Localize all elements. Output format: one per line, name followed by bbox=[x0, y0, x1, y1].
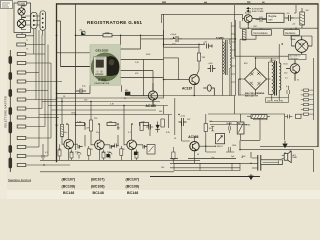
switch contact rects column bbox=[17, 53, 26, 167]
scattered tiny value labels bbox=[26, 10, 309, 169]
capacitor small row right bbox=[285, 114, 302, 118]
svg-text:+100: +100 bbox=[208, 63, 214, 65]
svg-text:REGISTRATORE: REGISTRATORE bbox=[95, 82, 110, 85]
wires oscillator bbox=[234, 3, 318, 56]
resistor hatched TERM row bbox=[247, 115, 270, 119]
svg-text:10: 10 bbox=[241, 157, 243, 159]
svg-text:AC128: AC128 bbox=[245, 12, 251, 15]
wire rails right of stamp bbox=[121, 49, 164, 96]
wire vertical x235.5 bbox=[235, 20, 237, 96]
wire bottom rail y171.8 bbox=[40, 171, 174, 173]
svg-text:BC148: BC148 bbox=[93, 191, 104, 195]
transistor Q1 bbox=[64, 139, 74, 149]
wire rails jack area bbox=[170, 152, 258, 168]
svg-text:0,1: 0,1 bbox=[45, 152, 48, 154]
svg-text:680: 680 bbox=[117, 128, 120, 130]
wire switch spine bbox=[9, 50, 11, 172]
switch wiper pill 4 bbox=[9, 108, 12, 115]
svg-text:0,1: 0,1 bbox=[286, 86, 289, 88]
resistor vertical 15K driver bbox=[197, 44, 206, 70]
svg-text:T2: T2 bbox=[26, 49, 28, 51]
switch wiper pill 2 bbox=[9, 73, 12, 80]
svg-text:5,6K: 5,6K bbox=[77, 121, 82, 123]
top frame double line bbox=[56, 3, 318, 5]
switch wiper pill 5 bbox=[9, 122, 12, 133]
svg-text:BC148: BC148 bbox=[63, 191, 74, 195]
resistor vertical stage2 bbox=[89, 120, 92, 131]
svg-text:OSC: OSC bbox=[253, 26, 258, 28]
svg-text:1000: 1000 bbox=[232, 145, 236, 147]
preamp rails bbox=[39, 98, 200, 172]
bottom right rails bbox=[150, 128, 318, 177]
resistor small x172.5 bbox=[172, 152, 175, 159]
black component box MR bbox=[125, 92, 130, 96]
capacitor interstage 1 bbox=[75, 145, 83, 154]
electrolytic +100 output bbox=[179, 116, 187, 127]
resistor second bbox=[17, 43, 26, 46]
svg-text:Deviatore: Deviatore bbox=[285, 32, 296, 35]
wire stage verticals bbox=[69, 124, 132, 160]
wire mesh from contacts bbox=[26, 30, 70, 165]
resistor horiz 470 bbox=[107, 122, 116, 125]
cap bottom row between stages bbox=[77, 153, 112, 159]
wire rail y149.7 bbox=[240, 140, 314, 172]
svg-text:BC148: BC148 bbox=[127, 191, 138, 195]
svg-text:(BC107): (BC107) bbox=[91, 178, 105, 182]
wire vertical bundle bbox=[33, 35, 35, 54]
svg-text:AC166: AC166 bbox=[188, 135, 198, 139]
motor regulator transistor bbox=[286, 60, 300, 81]
Commutatore box bbox=[252, 30, 271, 36]
wire rail y66 bbox=[61, 66, 91, 68]
resistor vertical stage1 bbox=[60, 125, 63, 138]
capacitor mid small bbox=[112, 144, 119, 148]
svg-text:AC125: AC125 bbox=[146, 104, 156, 108]
jack symbol right of driver bbox=[203, 85, 214, 96]
speaker bbox=[282, 151, 291, 162]
transistor Q2 bbox=[95, 140, 105, 150]
capacitor mid out bbox=[146, 125, 153, 130]
svg-text:+50µF: +50µF bbox=[170, 34, 177, 36]
svg-text:S 5709: S 5709 bbox=[270, 60, 276, 62]
wire rail y53 bbox=[57, 52, 90, 54]
resistor horiz 560 bbox=[76, 122, 85, 125]
svg-text:REGISTRATORE G.651: REGISTRATORE G.651 bbox=[87, 20, 142, 25]
Regolatore box bbox=[267, 13, 285, 22]
svg-text:T1: T1 bbox=[26, 40, 28, 42]
motor label box bbox=[289, 54, 307, 60]
mains transformer bbox=[272, 58, 281, 100]
svg-text:100: 100 bbox=[161, 167, 164, 169]
wire rail y14.3 bbox=[162, 14, 243, 23]
svg-text:220: 220 bbox=[90, 149, 93, 151]
svg-text:1500 g/min: 1500 g/min bbox=[289, 58, 298, 60]
electrolytic +100u driver bbox=[208, 63, 216, 72]
wire commutatore links bbox=[240, 28, 295, 95]
wire heavy left vertical bus bbox=[56, 3, 58, 162]
switch wiper pill 6 bbox=[9, 146, 12, 153]
svg-text:CN30: CN30 bbox=[19, 2, 26, 5]
resistor R on rail y35 bbox=[103, 34, 112, 37]
corner label top-left bbox=[1, 1, 13, 9]
motor bridge circle bbox=[291, 36, 312, 55]
transistor AC125 bbox=[148, 83, 157, 107]
wire links to bus bbox=[25, 36, 45, 45]
wire rail y93.5 bbox=[57, 94, 148, 96]
NTC box bbox=[237, 122, 251, 134]
capacitor dark C near Q3 bbox=[134, 152, 137, 155]
capacitor osc mid bbox=[256, 17, 267, 23]
svg-text:+50: +50 bbox=[292, 24, 295, 26]
Deviatore box bbox=[284, 30, 300, 36]
ground arrow bottom bbox=[249, 174, 253, 179]
bridge rectifier diamond bbox=[239, 64, 271, 95]
wire rail y101.5 bbox=[42, 101, 160, 103]
resistor vertical x205.8 bbox=[204, 124, 213, 132]
wire rail y105.5 bbox=[48, 105, 168, 107]
output stage wires bbox=[164, 98, 217, 163]
ground arrow right bbox=[283, 141, 287, 148]
central rails around stamp bbox=[57, 14, 164, 96]
erase head symbol bbox=[18, 6, 26, 17]
wires power section bbox=[239, 44, 314, 98]
bottom transistor labels group2 bbox=[91, 178, 105, 195]
right frame bbox=[317, 3, 319, 147]
svg-text:MR: MR bbox=[125, 90, 129, 92]
svg-text:100K: 100K bbox=[71, 113, 76, 115]
connector ladder x231-236 bbox=[231, 22, 235, 96]
electrolytic +50uF 25V bbox=[170, 34, 182, 46]
emitter resistors row bbox=[58, 149, 138, 158]
svg-text:100MF: 100MF bbox=[226, 123, 233, 125]
svg-text:(BC107): (BC107) bbox=[126, 178, 140, 182]
wire long vertical x75 bbox=[75, 4, 77, 150]
transistor AC166 output bbox=[190, 142, 199, 151]
hatched resistor top right bbox=[300, 8, 305, 28]
electrolytic osc bbox=[286, 13, 294, 21]
switch wiper pill 1 bbox=[9, 57, 12, 64]
svg-text:B30 C300 SIEMENS: B30 C300 SIEMENS bbox=[245, 93, 265, 95]
wires from heads to connectors bbox=[22, 16, 45, 44]
wire x173.4 bbox=[172, 147, 174, 163]
switch wiper pill 7 bbox=[9, 158, 12, 168]
wires NTC area bbox=[208, 96, 285, 153]
svg-text:A MOTORE: A MOTORE bbox=[252, 10, 264, 13]
svg-text:(220V, PHILIPS): (220V, PHILIPS) bbox=[267, 100, 283, 102]
jack socket bbox=[252, 155, 283, 171]
svg-text:AC187: AC187 bbox=[182, 86, 192, 90]
wire rail y110 bbox=[51, 109, 156, 111]
wire verticals output area bbox=[164, 98, 182, 141]
svg-text:4 3N50T: 4 3N50T bbox=[215, 146, 223, 148]
caps 50 on rail bbox=[205, 42, 213, 49]
wire second vertical bbox=[57, 21, 91, 67]
svg-text:470K: 470K bbox=[105, 33, 111, 35]
svg-text:A TESTINE: A TESTINE bbox=[252, 7, 264, 10]
recorder device white bbox=[94, 56, 107, 76]
connector strip B (4 pins) bbox=[40, 11, 46, 31]
svg-text:470K: 470K bbox=[146, 54, 151, 56]
svg-text:S 5855: S 5855 bbox=[216, 37, 224, 40]
dark figure right bbox=[107, 56, 119, 76]
svg-text:(BC108): (BC108) bbox=[62, 184, 76, 188]
wire lower box edge y95.5 bbox=[164, 95, 236, 97]
svg-text:(BC107): (BC107) bbox=[62, 178, 76, 182]
svg-text:B30 C250 ITT: B30 C250 ITT bbox=[245, 96, 259, 98]
wire vertical x242.5 bbox=[242, 14, 244, 21]
trimmer box bbox=[215, 134, 225, 149]
wire base feed AC166 bbox=[182, 136, 195, 163]
connector strip A (3 pins) bbox=[31, 12, 37, 29]
svg-text:47: 47 bbox=[297, 80, 299, 82]
wire rail y35 bbox=[76, 34, 164, 36]
resistor 47K output bbox=[156, 119, 164, 127]
svg-text:+100: +100 bbox=[180, 116, 186, 118]
wire right column x205.8 bbox=[199, 114, 216, 152]
svg-text:50: 50 bbox=[203, 43, 205, 45]
wire rail y114.5 bbox=[39, 114, 172, 116]
svg-text:Commutatore: Commutatore bbox=[253, 32, 268, 35]
wire heavy bottom bus bbox=[150, 176, 260, 178]
wire rail y44.3 bbox=[164, 44, 206, 47]
wire stage bottom links bbox=[42, 144, 137, 160]
capacitor interstage 2 bbox=[107, 145, 115, 154]
specks above frame bbox=[162, 2, 265, 3]
resistor below head box bbox=[17, 34, 26, 37]
wire verticals mid bbox=[90, 14, 164, 95]
wire box above heavy bus bbox=[174, 164, 240, 171]
diode on rail y35 bbox=[79, 30, 85, 36]
capacitor dark C near Q2 bbox=[106, 154, 109, 157]
trimmer box right of Q3 bbox=[147, 145, 155, 155]
bottom transistor labels group1 bbox=[62, 178, 76, 195]
svg-text:(BC108): (BC108) bbox=[91, 184, 105, 188]
oscillator transistor bbox=[243, 15, 256, 26]
capacitor small at row bbox=[76, 89, 86, 94]
selector switch left column bbox=[9, 50, 12, 172]
svg-text:G 651: G 651 bbox=[98, 78, 107, 82]
capacitor interstage 3 bbox=[143, 145, 148, 149]
svg-text:B30: B30 bbox=[244, 63, 247, 65]
bottom transistor labels group3 bbox=[126, 178, 140, 195]
svg-text:560: 560 bbox=[159, 111, 162, 113]
wire rail y38.9 bbox=[141, 38, 236, 40]
wire ground rail y162.3 bbox=[40, 159, 200, 161]
record/play head symbol bbox=[17, 18, 26, 30]
right connector column bbox=[301, 88, 314, 120]
ground arrow mid bbox=[259, 176, 261, 178]
wire vertical x178.5 bbox=[164, 58, 179, 80]
svg-text:SELETTORE NASTRO: SELETTORE NASTRO bbox=[4, 95, 8, 128]
transistor Q3 bbox=[127, 140, 137, 150]
arrows to left bbox=[247, 7, 252, 12]
resistor vertical x141.5 bbox=[140, 123, 143, 131]
label 220V box bbox=[266, 98, 289, 103]
wire vertical x163.5 bbox=[163, 30, 165, 98]
diode dark down bbox=[155, 122, 159, 133]
svg-text:500: 500 bbox=[306, 10, 309, 12]
transistor AC187 driver bbox=[164, 70, 200, 96]
switch wiper pill 3 bbox=[9, 90, 12, 97]
svg-text:220: 220 bbox=[58, 149, 61, 151]
resistor hatched below rail28 bbox=[242, 30, 246, 41]
driver section rails and box bbox=[141, 14, 243, 98]
stamp photo Geloso G.651 bbox=[90, 45, 121, 85]
transformer S5855 interstage bbox=[223, 39, 232, 96]
svg-text:(BC108): (BC108) bbox=[126, 184, 140, 188]
svg-text:GELOSO: GELOSO bbox=[96, 48, 110, 52]
resistor horiz stage3 bbox=[140, 122, 149, 125]
svg-text:tore: tore bbox=[269, 19, 274, 22]
wire rail y98 bbox=[56, 97, 164, 99]
svg-text:PARL: PARL bbox=[293, 156, 298, 159]
wire speaker links bbox=[285, 145, 290, 154]
svg-text:4,7: 4,7 bbox=[128, 132, 131, 134]
wire rail y146.6 bbox=[260, 128, 318, 147]
svg-text:50: 50 bbox=[124, 98, 126, 100]
svg-text:54: 54 bbox=[197, 154, 199, 156]
head unit box (testine) bbox=[14, 2, 31, 33]
